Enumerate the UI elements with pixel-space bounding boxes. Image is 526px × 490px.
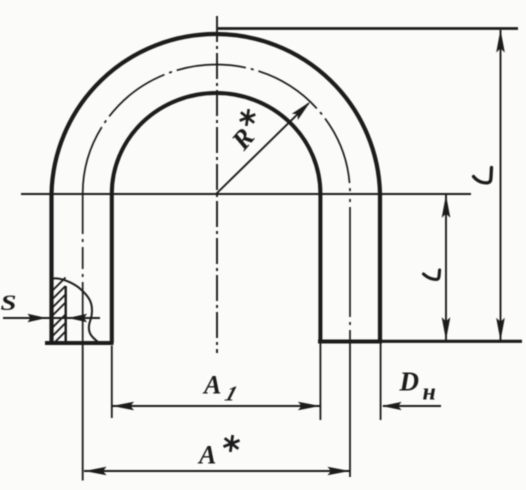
arrow A* left <box>85 467 107 475</box>
right leg end face <box>318 340 382 344</box>
arrow A1 left <box>112 402 134 410</box>
svg-text:A: A <box>202 371 221 400</box>
svg-text:D: D <box>399 367 420 397</box>
extension line below left leg axis <box>82 343 84 481</box>
dimension A1 line <box>112 405 321 407</box>
arrow l bottom <box>442 317 451 340</box>
arrow L bottom <box>496 318 505 341</box>
svg-text:A: A <box>197 441 216 470</box>
arrow A1 right <box>298 402 320 410</box>
arrow Dn (points left at right edge) <box>382 402 402 410</box>
horizontal centerline <box>21 193 471 195</box>
S leader line <box>3 317 100 319</box>
label A* asterisk <box>223 434 240 453</box>
label l <box>424 270 440 280</box>
radius R dimension arrow <box>217 104 309 194</box>
arrow S inner (points left at inner wall) <box>68 314 87 322</box>
arrow l top <box>442 195 451 218</box>
label R asterisk <box>239 108 256 127</box>
arrow A* right <box>328 467 350 475</box>
extension line below right leg axis <box>349 341 351 477</box>
top tangent extension line <box>218 27 518 30</box>
pipe inner contour (U-bend) <box>112 93 321 343</box>
dimension Dn line <box>383 405 441 407</box>
extension line below left leg inner edge <box>111 346 113 419</box>
left leg end face <box>45 341 114 345</box>
pipe outer contour (U-bend) <box>52 34 381 343</box>
dimension l line <box>445 195 447 341</box>
dimension L line <box>500 30 502 340</box>
arrow S outer (points right at outer wall) <box>28 314 47 322</box>
arrow L top <box>496 30 505 53</box>
vertical centerline <box>216 16 218 353</box>
baseline extension of right end face <box>382 340 522 343</box>
pipe axis line (dash-dot through bend) <box>82 194 84 344</box>
svg-text:н: н <box>423 380 436 406</box>
break wavy line <box>53 278 98 342</box>
svg-text:S: S <box>1 290 17 315</box>
wall inner surface line (broken-out section) <box>64 286 66 343</box>
label L <box>474 168 492 183</box>
section hatching <box>53 278 66 343</box>
dimension A* line <box>84 470 350 472</box>
extension line below right leg left edge <box>319 344 321 421</box>
extension line below right leg right edge <box>380 344 382 421</box>
